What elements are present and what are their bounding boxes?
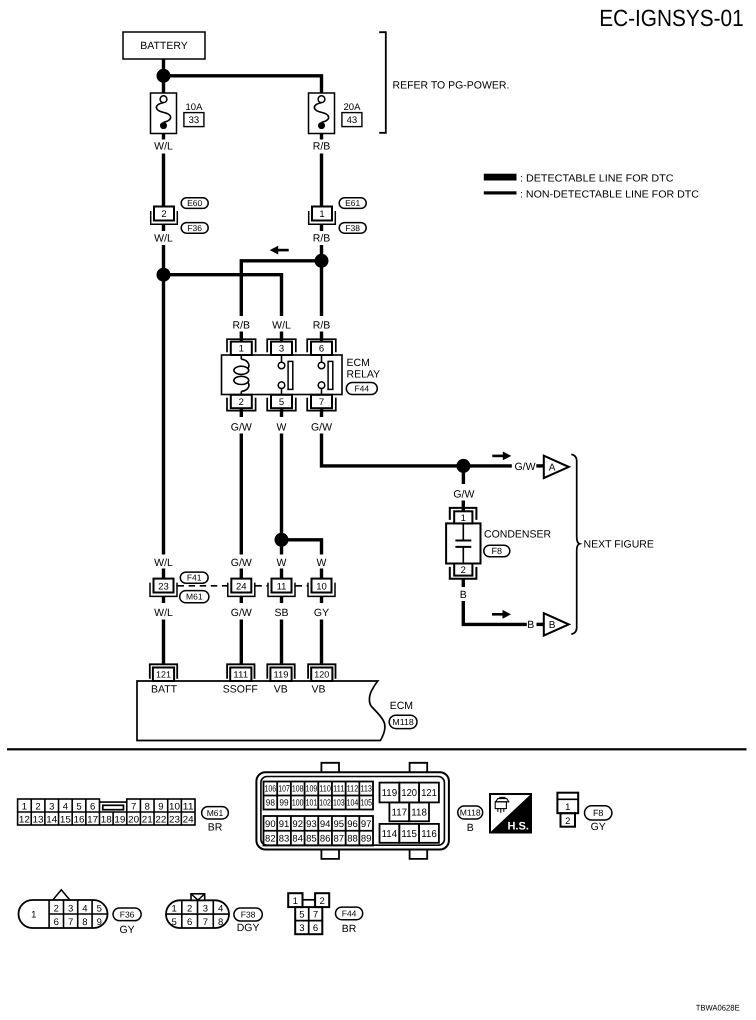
svg-text:G/W: G/W xyxy=(231,421,252,433)
connector F41/M61 pin 10 xyxy=(320,569,323,580)
junction node W splice xyxy=(275,533,289,547)
svg-text:1: 1 xyxy=(31,909,36,920)
wire W pin5 down xyxy=(280,434,283,555)
svg-text:16: 16 xyxy=(74,815,85,826)
connector ref F38 inline xyxy=(339,223,366,234)
splice dashed link xyxy=(178,585,228,587)
wire R/B to junction xyxy=(320,245,323,261)
svg-text:1: 1 xyxy=(172,903,177,914)
wire W/L to ECM pin 121 xyxy=(162,620,165,666)
svg-text:H.S.: H.S. xyxy=(507,821,528,833)
wire B to triangle B xyxy=(463,601,527,624)
svg-text:G/W: G/W xyxy=(311,421,332,433)
svg-text:83: 83 xyxy=(279,834,290,845)
svg-text:7: 7 xyxy=(313,909,318,920)
svg-text:7: 7 xyxy=(203,917,208,928)
svg-text:3: 3 xyxy=(279,344,284,355)
svg-text:EC-IGNSYS-01: EC-IGNSYS-01 xyxy=(599,5,744,31)
wire stub condenser pin 1 xyxy=(462,501,465,513)
connector F41/M61 pin 24 xyxy=(240,569,243,580)
arrow to next figure A xyxy=(492,455,504,458)
relay contact 3-5 xyxy=(281,355,283,362)
junction node G/W condenser xyxy=(456,459,470,473)
relay contact 6-7 xyxy=(321,355,323,362)
svg-text:8: 8 xyxy=(82,917,87,928)
svg-text:89: 89 xyxy=(361,834,372,845)
svg-text:6: 6 xyxy=(319,344,324,355)
connector ref F41 xyxy=(180,572,208,583)
svg-text:119: 119 xyxy=(274,670,289,680)
svg-text:SSOFF: SSOFF xyxy=(223,683,258,695)
connector ref F44 xyxy=(336,907,363,920)
svg-text:8: 8 xyxy=(145,802,150,813)
svg-text:W/L: W/L xyxy=(272,319,291,331)
condenser pin 2 xyxy=(454,564,472,576)
svg-text:VB: VB xyxy=(274,683,288,695)
brace next figure xyxy=(571,454,579,634)
svg-text:B: B xyxy=(527,619,534,631)
fuse 20A 43 xyxy=(309,93,335,134)
wire W/L to junction xyxy=(162,245,165,275)
svg-text:B: B xyxy=(467,822,474,834)
svg-text:7: 7 xyxy=(68,917,73,928)
svg-text:33: 33 xyxy=(189,115,200,126)
svg-text:120: 120 xyxy=(314,670,329,680)
connector ref F38 xyxy=(234,908,262,921)
svg-text:3: 3 xyxy=(49,802,54,813)
svg-text:117: 117 xyxy=(392,807,408,818)
wire stub relay pin 2 xyxy=(240,408,243,417)
svg-text:2: 2 xyxy=(54,903,59,914)
connector E61/F38 pin 1 xyxy=(309,211,336,224)
svg-text:6: 6 xyxy=(90,802,95,813)
junction node R/B xyxy=(315,254,329,268)
svg-text:9: 9 xyxy=(158,802,163,813)
svg-text:87: 87 xyxy=(334,834,345,845)
svg-text:104: 104 xyxy=(347,798,359,808)
svg-text:1: 1 xyxy=(239,344,244,355)
arrow current direction left xyxy=(277,249,289,252)
svg-text:ECM: ECM xyxy=(347,357,370,369)
svg-text:14: 14 xyxy=(46,815,57,826)
svg-text:6: 6 xyxy=(187,917,192,928)
svg-text:91: 91 xyxy=(279,819,290,830)
relay pin 3 xyxy=(267,339,296,352)
svg-text:SB: SB xyxy=(274,607,288,619)
svg-text:F44: F44 xyxy=(354,383,369,393)
svg-text:82: 82 xyxy=(265,834,276,845)
svg-text:107: 107 xyxy=(278,784,290,794)
svg-text:1: 1 xyxy=(461,513,466,524)
svg-text:12: 12 xyxy=(19,815,30,826)
svg-text:121: 121 xyxy=(156,670,171,680)
svg-text:115: 115 xyxy=(401,829,417,840)
svg-text:3: 3 xyxy=(299,923,304,934)
svg-text:: NON-DETECTABLE LINE FOR DTC: : NON-DETECTABLE LINE FOR DTC xyxy=(520,190,700,201)
svg-text:A: A xyxy=(549,462,556,473)
svg-text:85: 85 xyxy=(306,834,317,845)
wire stub before triangle B xyxy=(537,623,544,626)
svg-text:106: 106 xyxy=(265,784,277,794)
svg-text:CONDENSER: CONDENSER xyxy=(484,528,552,540)
svg-text:B: B xyxy=(460,589,467,601)
legend detectable line sample xyxy=(484,174,517,181)
F36 keying triangle xyxy=(53,890,69,900)
wire stub relay pin 5 xyxy=(280,408,283,417)
svg-text:86: 86 xyxy=(320,834,331,845)
relay pin 7 xyxy=(307,398,336,411)
svg-text:102: 102 xyxy=(319,798,331,808)
svg-text:7: 7 xyxy=(131,802,136,813)
svg-text:1: 1 xyxy=(319,209,324,220)
wire stub relay pin 6 xyxy=(320,332,323,344)
svg-text:G/W: G/W xyxy=(231,557,252,569)
connector face M61 xyxy=(18,799,195,825)
svg-text:2: 2 xyxy=(319,896,324,907)
connector ref M61 xyxy=(202,807,229,819)
svg-text:BATT: BATT xyxy=(151,683,178,695)
svg-text:118: 118 xyxy=(411,807,427,818)
svg-text:94: 94 xyxy=(320,819,331,830)
svg-text:2: 2 xyxy=(187,903,192,914)
F38 keying mark xyxy=(191,894,205,901)
wire stub relay pin 7 xyxy=(320,408,323,417)
connector F41/M61 pin 23 xyxy=(162,569,165,580)
triangle connector B xyxy=(544,613,569,635)
svg-text:2: 2 xyxy=(35,802,40,813)
svg-text:3: 3 xyxy=(203,903,208,914)
svg-text:RELAY: RELAY xyxy=(347,368,381,380)
svg-text:97: 97 xyxy=(361,819,372,830)
wire stub before triangle A xyxy=(536,464,543,467)
harness side connector icon xyxy=(496,799,509,802)
junction node battery feed xyxy=(157,69,171,83)
svg-text:103: 103 xyxy=(333,798,345,808)
svg-text:F38: F38 xyxy=(345,223,360,233)
wire junction to condenser xyxy=(462,466,465,484)
svg-text:R/B: R/B xyxy=(313,233,331,245)
svg-text:11: 11 xyxy=(183,802,194,813)
connector face F8 xyxy=(557,793,578,814)
wire battery to junction xyxy=(162,59,165,76)
svg-text:10: 10 xyxy=(169,802,180,813)
svg-text:W/L: W/L xyxy=(154,607,173,619)
svg-text:NEXT FIGURE: NEXT FIGURE xyxy=(584,538,654,550)
svg-text:F8: F8 xyxy=(492,546,503,556)
relay pin 2 xyxy=(227,398,256,411)
svg-text:F36: F36 xyxy=(187,223,202,233)
svg-text:R/B: R/B xyxy=(313,141,331,153)
connector ref F36 inline xyxy=(181,223,208,234)
legend non-detectable line sample xyxy=(484,191,517,194)
wire junction to fuse 43 column xyxy=(164,76,322,93)
svg-text:W: W xyxy=(317,557,327,569)
svg-text:9: 9 xyxy=(97,917,102,928)
wire stub relay pin 1 xyxy=(240,332,243,344)
wire W branch to GY column xyxy=(282,540,322,555)
svg-text:GY: GY xyxy=(120,924,135,936)
capacitor condenser F8 xyxy=(446,523,480,563)
svg-text:23: 23 xyxy=(169,815,180,826)
svg-text:G/W: G/W xyxy=(231,607,252,619)
svg-text:REFER TO PG-POWER.: REFER TO PG-POWER. xyxy=(393,80,510,92)
svg-text:6: 6 xyxy=(313,923,318,934)
svg-text:R/B: R/B xyxy=(313,319,331,331)
svg-text:11: 11 xyxy=(277,581,287,592)
svg-text:M118: M118 xyxy=(392,717,413,727)
svg-text:4: 4 xyxy=(63,802,68,813)
op ECM relay body U1 xyxy=(222,355,343,395)
relay pin 6 xyxy=(307,339,336,352)
ECM pin 120 xyxy=(308,664,335,679)
svg-text:BR: BR xyxy=(342,923,357,935)
svg-text:DGY: DGY xyxy=(237,922,260,934)
svg-text:93: 93 xyxy=(306,819,317,830)
svg-text:BATTERY: BATTERY xyxy=(140,40,187,52)
connector ref F8 xyxy=(585,806,612,820)
svg-text:88: 88 xyxy=(347,834,358,845)
svg-text:17: 17 xyxy=(87,815,98,826)
svg-text:110: 110 xyxy=(319,784,331,794)
svg-text:B: B xyxy=(549,620,556,631)
svg-text:24: 24 xyxy=(236,581,247,592)
svg-text:5: 5 xyxy=(279,397,284,408)
svg-text:5: 5 xyxy=(172,917,177,928)
wire E61 to label R/B 2 xyxy=(320,224,323,231)
svg-text:: DETECTABLE LINE FOR DTC: : DETECTABLE LINE FOR DTC xyxy=(520,174,674,185)
svg-text:101: 101 xyxy=(306,798,318,808)
svg-text:99: 99 xyxy=(279,798,288,808)
svg-text:1: 1 xyxy=(22,802,27,813)
harness side mark H.S. xyxy=(490,794,531,833)
svg-text:43: 43 xyxy=(347,115,358,126)
connector ref E60 xyxy=(181,198,208,209)
svg-text:95: 95 xyxy=(334,819,345,830)
svg-text:84: 84 xyxy=(292,834,303,845)
wire junction to fuse 33 xyxy=(162,76,165,93)
svg-text:R/B: R/B xyxy=(233,319,251,331)
svg-text:116: 116 xyxy=(421,829,437,840)
svg-text:TBWA0628E: TBWA0628E xyxy=(696,1004,740,1013)
svg-text:E61: E61 xyxy=(345,198,360,208)
svg-text:108: 108 xyxy=(292,784,304,794)
connector ref F44 inline xyxy=(346,383,377,395)
svg-text:3: 3 xyxy=(68,903,73,914)
svg-text:F38: F38 xyxy=(241,909,256,919)
svg-text:5: 5 xyxy=(299,909,304,920)
wire stub relay pin 3 xyxy=(280,332,283,344)
svg-text:W: W xyxy=(277,557,287,569)
svg-text:6: 6 xyxy=(54,917,59,928)
svg-text:5: 5 xyxy=(76,802,81,813)
connector face F38 xyxy=(166,900,229,928)
svg-text:21: 21 xyxy=(142,815,153,826)
svg-text:7: 7 xyxy=(319,397,324,408)
svg-text:19: 19 xyxy=(114,815,125,826)
bracket refer xyxy=(379,32,386,133)
svg-text:G/W: G/W xyxy=(453,489,474,501)
svg-text:5: 5 xyxy=(97,903,102,914)
svg-text:111: 111 xyxy=(333,784,345,794)
connector ref F36 xyxy=(113,908,141,921)
connector face F44 xyxy=(288,893,302,907)
wire W/L to connector E60 xyxy=(162,154,165,208)
svg-text:W/L: W/L xyxy=(154,141,173,153)
svg-text:90: 90 xyxy=(265,819,276,830)
connector ref E61 xyxy=(339,198,366,209)
fuse 10A 33 xyxy=(151,93,177,134)
svg-text:13: 13 xyxy=(33,815,44,826)
wire R/B junction to relay pin 1 xyxy=(241,261,321,316)
wire R/B junction to relay pin 6 xyxy=(320,261,323,316)
wire SB to ECM pin 119 xyxy=(280,620,283,666)
svg-text:100: 100 xyxy=(292,798,304,808)
svg-text:98: 98 xyxy=(266,798,275,808)
connector ref F8 inline xyxy=(484,545,510,557)
arrow to next figure B xyxy=(492,613,504,616)
wire fuse 33 to label W/L xyxy=(162,134,165,140)
svg-text:112: 112 xyxy=(347,784,359,794)
battery xyxy=(123,32,205,59)
svg-text:114: 114 xyxy=(382,829,398,840)
svg-text:E60: E60 xyxy=(187,198,202,208)
box ECM M118 xyxy=(137,681,385,741)
svg-text:10A: 10A xyxy=(186,102,204,113)
connector ref M118 xyxy=(458,806,483,819)
svg-text:4: 4 xyxy=(218,903,223,914)
connector F41/M61 pin 11 xyxy=(280,569,283,580)
svg-text:M61: M61 xyxy=(207,808,224,818)
svg-text:22: 22 xyxy=(155,815,166,826)
separator line xyxy=(7,748,747,750)
wire GY to ECM pin 120 xyxy=(320,620,323,666)
relay pin 5 xyxy=(267,398,296,411)
wire G/W to ECM pin 111 xyxy=(240,620,243,666)
svg-text:120: 120 xyxy=(401,788,417,799)
relay coil xyxy=(240,355,242,359)
wire G/W pin2 down xyxy=(240,434,243,555)
svg-text:G/W: G/W xyxy=(515,461,536,473)
svg-text:M118: M118 xyxy=(460,808,481,818)
svg-text:20A: 20A xyxy=(344,102,362,113)
wire stub condenser pin 2 xyxy=(462,579,465,587)
svg-text:113: 113 xyxy=(360,784,372,794)
wire fuse 43 to label R/B xyxy=(320,134,323,140)
svg-text:18: 18 xyxy=(101,815,112,826)
wire R/B to connector E61 xyxy=(320,154,323,208)
ECM pin 111 xyxy=(227,664,254,679)
svg-text:F36: F36 xyxy=(120,909,135,919)
svg-text:119: 119 xyxy=(382,788,398,799)
ECM pin 121 xyxy=(150,664,177,679)
svg-text:121: 121 xyxy=(421,788,437,799)
svg-text:92: 92 xyxy=(292,819,303,830)
svg-text:F8: F8 xyxy=(593,808,604,818)
svg-text:4: 4 xyxy=(82,903,87,914)
connector face F36 xyxy=(19,900,108,928)
condenser pin 1 xyxy=(450,508,477,520)
svg-text:111: 111 xyxy=(233,670,248,680)
svg-text:M61: M61 xyxy=(186,592,203,602)
svg-text:VB: VB xyxy=(311,683,325,695)
svg-text:20: 20 xyxy=(128,815,139,826)
svg-text:2: 2 xyxy=(461,565,466,576)
svg-text:24: 24 xyxy=(183,815,194,826)
connector E60/F36 pin 2 xyxy=(151,211,178,224)
wire E60 to label W/L 2 xyxy=(162,224,165,231)
svg-text:W/L: W/L xyxy=(154,557,173,569)
svg-text:W: W xyxy=(277,421,287,433)
connector ref M61 inline xyxy=(180,591,209,603)
svg-text:BR: BR xyxy=(208,821,223,833)
wire W/L junction to relay pin 3 xyxy=(164,275,282,316)
svg-text:2: 2 xyxy=(161,209,166,220)
svg-text:23: 23 xyxy=(158,581,169,592)
svg-text:105: 105 xyxy=(360,798,372,808)
wire W/L junction down to connector 23 xyxy=(162,275,165,555)
svg-text:8: 8 xyxy=(218,917,223,928)
svg-text:96: 96 xyxy=(347,819,358,830)
svg-text:GY: GY xyxy=(314,607,329,619)
relay pin 1 xyxy=(227,339,256,352)
wire G/W pin7 to condenser junction xyxy=(322,434,512,466)
connector face M118 ECM xyxy=(256,772,449,849)
svg-text:1: 1 xyxy=(293,896,298,907)
svg-text:F41: F41 xyxy=(187,573,202,583)
svg-text:W/L: W/L xyxy=(154,233,173,245)
triangle connector A xyxy=(544,456,569,478)
connector ref M118 inline xyxy=(389,715,417,728)
svg-text:2: 2 xyxy=(565,816,570,827)
svg-text:109: 109 xyxy=(306,784,318,794)
svg-text:F44: F44 xyxy=(342,908,357,918)
ECM pin 119 xyxy=(267,664,294,679)
svg-text:ECM: ECM xyxy=(390,700,413,712)
svg-text:1: 1 xyxy=(565,802,570,813)
svg-text:10: 10 xyxy=(316,581,327,592)
svg-text:15: 15 xyxy=(60,815,71,826)
junction node W/L xyxy=(157,268,171,282)
svg-text:GY: GY xyxy=(591,821,606,833)
svg-text:2: 2 xyxy=(239,397,244,408)
